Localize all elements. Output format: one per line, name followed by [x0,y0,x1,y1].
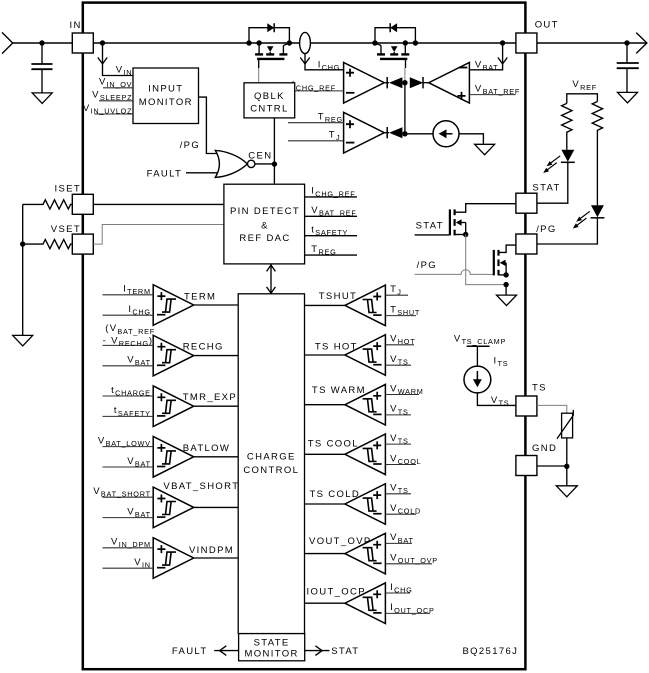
transistor Q1 input blocking FET [249,28,289,59]
wire VINDPM noninverting input [103,547,154,549]
wire TS COOL output [305,453,345,455]
svg-text:TS: TS [532,383,547,394]
node Q1 right [287,40,292,45]
wire GND pin to node [537,465,567,467]
NOR gate U5 [215,150,247,177]
svg-text:MONITOR: MONITOR [245,649,299,660]
svg-text:CEN: CEN [248,151,272,162]
wire TS COLD output [305,503,345,505]
wire TS WARM inverting input [385,414,411,416]
svg-text:/PG: /PG [180,140,200,151]
wire TS HOT noninverting input [385,344,414,346]
svg-text:TSHUT: TSHUT [319,291,357,302]
wire tSAFETY output [305,235,357,237]
node Q3 source [463,232,468,237]
node Q1 left [246,40,251,45]
arrow VBAT sense direction [498,58,507,64]
comparator IOUT_OCP [345,583,386,624]
svg-text:&: & [261,220,269,231]
wire /PG gate with hop [415,270,493,275]
diode D3 ICHG amp output [384,82,389,84]
svg-text:VSET: VSET [51,224,81,235]
comparator TS COLD [345,484,386,525]
input terminal arrow [2,32,13,53]
wire Q3 source to ground bus [466,235,506,285]
wire input rail to IN pin [13,42,73,44]
wire VIN_OV input [103,87,133,89]
wire RECHG noninverting input [103,344,154,346]
wire LED D7 to /PG pin [537,218,597,244]
svg-text:VBAT_SHORT: VBAT_SHORT [163,481,239,492]
wire /PG from INPUT MONITOR to gate [199,97,218,153]
diode D4 VBAT amp output [410,77,423,88]
svg-text:CNTRL: CNTRL [250,103,288,114]
wire ISET to PIN DETECT [93,203,224,205]
wire rail OUT to output cap [537,42,646,44]
wire to ground [505,285,507,296]
block QBLK CNTRL [244,83,295,118]
svg-text:VOUT_OVP: VOUT_OVP [309,536,372,547]
diode D5 TREG amp output [384,132,389,134]
wire VREF rail [567,94,598,104]
node OR diodes [402,80,407,85]
current sense element (ellipse) [300,32,311,53]
wire TSHUT noninverting input [385,294,408,296]
svg-text:MONITOR: MONITOR [139,97,193,108]
wire VOUT_OVP inverting input [385,563,432,565]
wire Q3 source [456,234,466,236]
pin TS [516,396,537,416]
wire IOUT_OCP noninverting input [385,592,410,594]
body diode D1 of Q1 [267,23,274,32]
wire TREG input [288,122,344,124]
svg-text:ISET: ISET [54,183,81,194]
wire I2 to TS pin [477,393,516,406]
node Q4 source [503,272,508,277]
comparator VINDPM [153,538,194,579]
wire VBAT_SHORT output [194,506,239,508]
wire TS WARM output [305,404,345,406]
wire VIN tap to INPUT MONITOR [103,43,134,76]
node GND thermistor [564,464,569,469]
wire LED D6 to STAT pin [537,162,567,203]
node Q2 right [413,40,418,45]
ground I1 [475,144,495,155]
svg-text:/PG: /PG [417,260,437,271]
wire I1 to ground [459,134,483,145]
LED D6 STAT [561,150,574,162]
svg-text:GND: GND [532,443,557,454]
wire VINDPM inverting input [103,567,154,569]
wire VBAT_REF input [469,94,515,96]
wire TERM inverting input [103,314,154,316]
comparator TERM [153,285,194,326]
wire CEN to PIN DETECT [273,164,275,184]
junction input cap node [39,40,44,45]
wire VSET to PIN DETECT [93,225,224,245]
wire node to current source I1 [405,133,433,135]
block STATE MONITOR [239,634,305,661]
LED D7 /PG [591,205,604,217]
node TREG diode [402,131,407,136]
wire VSLEEPZ input [99,100,133,102]
wire PIN DETECT to CHARGE CONTROL (bidirectional) [270,264,272,293]
svg-text:INPUT: INPUT [148,84,183,95]
wire resistor bus [22,204,24,335]
resistor R2 /PG LED [592,102,602,206]
wire Q3 drain to STAT pin [456,204,517,213]
node Q2 drain [403,40,408,45]
capacitor output C2 [626,43,628,63]
svg-text:TERM: TERM [184,291,216,302]
wire TS COOL inverting input [385,464,416,466]
block CHARGE CONTROL [238,294,304,634]
wire VIN_UVLOZ input [95,113,134,115]
svg-text:STAT: STAT [416,220,444,231]
wire CEN output [255,163,275,165]
comparator VBAT_SHORT [153,487,194,528]
pin VSET [72,234,93,254]
wire TSHUT output [305,304,345,306]
wire Q4 drain to /PG pin [499,245,516,252]
svg-text:BATLOW: BATLOW [183,443,231,454]
ground STAT //PG FETs [497,295,517,306]
comparator BATLOW [153,437,194,478]
wire TS pin to thermistor [537,405,567,413]
svg-text:CHARGE: CHARGE [247,452,296,463]
wire TS HOT output [305,354,345,356]
node VIN tap [100,40,105,45]
supply bar VTS_CLAMP [467,345,490,347]
svg-text:IN: IN [70,20,82,31]
wire TSHUT inverting input [385,315,416,317]
svg-text:TMR_EXP: TMR_EXP [183,392,237,403]
wire VOUT_OVP output [305,553,345,555]
wire TS COOL noninverting input [385,443,411,445]
svg-text:QBLK: QBLK [254,91,285,102]
pin /PG [516,234,537,254]
ground GND pin network [556,486,577,497]
wire TMR_EXP inverting input [103,415,154,417]
output terminal arrow [636,33,647,54]
comparator TS WARM [345,384,386,425]
wire TERM noninverting input [103,294,154,296]
svg-text:TS HOT: TS HOT [315,342,358,353]
node output cap [624,40,629,45]
comparator TSHUT [345,285,386,326]
wire TMR_EXP output [194,405,239,407]
wire ICHG_REF output [305,196,357,198]
pin IN [72,33,93,53]
svg-text:TS COLD: TS COLD [309,489,360,500]
arrow sense current direction [300,58,309,64]
wire FAULT input [186,172,217,174]
pin GND [516,456,537,476]
op-amp ICHG error amplifier [344,62,385,103]
wire Q1 gate to QBLK CNTRL [258,60,260,68]
node Q1 source [256,40,261,45]
wire FAULT output [214,650,238,652]
wire QBLK CNTRL to CEN node [273,118,275,164]
wire TS HOT inverting input [385,364,411,366]
wire TERM output [194,304,239,306]
comparator VOUT_OVP [345,533,386,574]
svg-text:REF DAC: REF DAC [239,233,290,244]
wire STAT output [305,650,330,652]
wire VBAT_SHORT noninverting input [103,496,154,498]
pin OUT [516,33,537,53]
ground output cap [618,92,638,103]
svg-text:PIN DETECT: PIN DETECT [230,206,300,217]
wire VBAT tap from rail [469,43,502,70]
comparator TMR_EXP [153,386,194,427]
svg-text:BQ25176J: BQ25176J [463,646,519,657]
resistor RISET [23,200,73,209]
wire TJ input [288,140,344,142]
body diode D2 of Q2 [390,23,397,32]
op-amp TREG thermal amplifier [344,112,385,153]
block INPUT MONITOR [133,68,199,124]
wire rail IN to sense [93,42,299,44]
current source I2 ITS [464,366,491,393]
resistor R1 STAT LED [562,103,572,149]
wire VINDPM output [194,557,239,559]
wire rail sense to OUT [310,42,516,44]
pin STAT [516,193,537,213]
node VBAT tap [500,40,505,45]
transistor Q4 /PG open-drain [493,250,495,276]
comparator RECHG [153,335,194,376]
svg-text:CONTROL: CONTROL [243,465,299,476]
wire TS WARM noninverting input [385,394,419,396]
wire RECHG output [194,355,239,357]
svg-text:STATE: STATE [254,637,290,648]
svg-text:/PG: /PG [536,224,556,235]
wire IOUT_OCP output [305,602,345,604]
current source I1 [433,121,459,147]
wire error amp OR node [404,83,406,134]
wire thermistor to ground node [566,438,568,466]
arrow VIN direction [98,58,107,64]
svg-text:TS WARM: TS WARM [312,385,366,396]
wire BATLOW noninverting input [103,446,154,448]
thermistor RT [562,413,573,438]
node Q2 left [372,40,377,45]
svg-text:TS COOL: TS COOL [308,439,359,450]
wire ICHG_REF input [288,90,344,92]
transistor Q3 STAT open-drain [449,209,451,235]
resistor RVSET [23,240,73,249]
wire sense output to ICHG amp [305,54,344,70]
ground input cap [32,93,52,104]
node CEN [272,161,277,166]
svg-text:STAT: STAT [331,646,359,657]
wire TS COLD inverting input [385,513,416,515]
comparator TS HOT [345,335,386,376]
ground resistor bus [13,335,33,346]
comparator TS COOL [345,434,386,475]
wire clamp to current source I2 [476,346,478,366]
svg-text:IOUT_OCP: IOUT_OCP [307,586,366,597]
wire Q2 gate to error amp node [405,60,407,68]
wire VBAT_SHORT inverting input [103,517,154,519]
transistor Q2 output blocking FET [375,28,415,59]
wire BATLOW output [194,456,239,458]
wire Q4 source [499,274,506,276]
block PIN DETECT & REF DAC [224,184,305,264]
wire TMR_EXP noninverting input [103,395,154,397]
svg-text:STAT: STAT [532,183,560,194]
svg-text:RECHG: RECHG [183,341,224,352]
svg-text:VINDPM: VINDPM [189,545,234,556]
svg-text:FAULT: FAULT [172,646,208,657]
pin ISET [72,194,93,214]
wire RECHG inverting input [103,365,154,367]
wire node to ground [566,466,568,486]
capacitor input C1 [41,43,43,63]
svg-text:OUT: OUT [535,20,559,31]
node resistor bus [20,241,25,246]
IC block outline BQ25176J [83,3,526,670]
node ground join [503,282,508,287]
wire IOUT_OCP inverting input [385,612,430,614]
wire TREG output [305,254,357,256]
wire VOUT_OVP noninverting input [385,542,412,544]
wire VBAT_REF output [305,215,357,217]
wire BATLOW inverting input [103,466,154,468]
svg-text:FAULT: FAULT [147,168,183,179]
wire TS COLD noninverting input [385,493,411,495]
op-amp VBAT error amplifier [429,62,470,103]
wire STAT gate [415,234,449,236]
